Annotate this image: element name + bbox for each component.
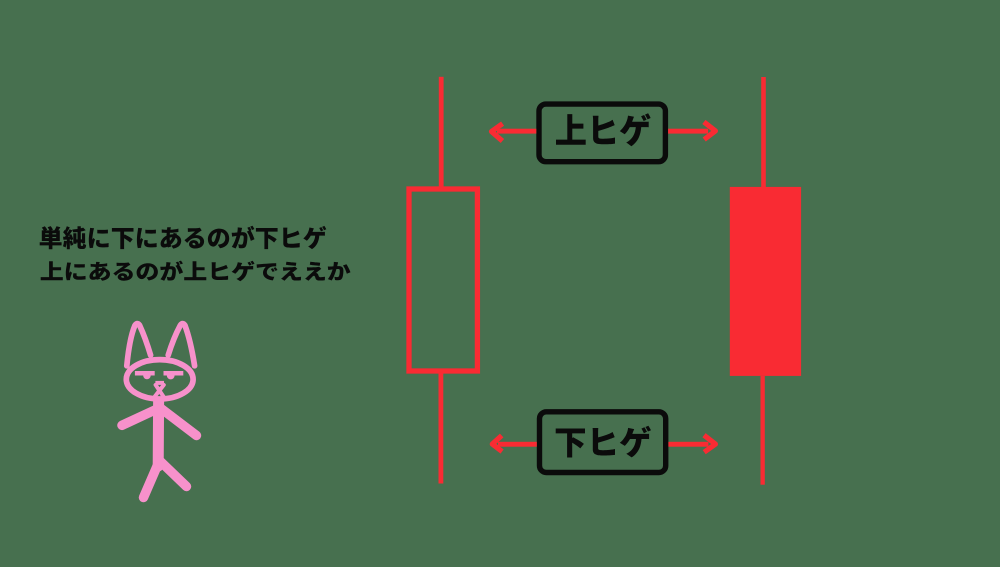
cat right arm [161, 409, 197, 436]
upper wick label box [539, 104, 665, 162]
upper-right arrowhead [704, 122, 716, 140]
label text 下ヒゲ [556, 426, 651, 458]
lower-right arrow shaft [668, 442, 708, 447]
cat right leg [161, 462, 187, 487]
lower-left arrowhead [492, 436, 502, 452]
lower wick label box [540, 412, 666, 473]
cat right pupil [167, 376, 175, 380]
lower-left arrow shaft [498, 442, 537, 447]
text line 1: 単純に下にあるのが下ヒゲ [40, 226, 327, 250]
cat left leg [144, 464, 159, 498]
text line 2: 上にあるのが上ヒゲでええか [41, 261, 351, 282]
lower-right arrowhead [704, 435, 715, 452]
cat head [126, 360, 193, 399]
cat left pupil [143, 376, 151, 380]
cat left arm [122, 410, 156, 426]
cat muzzle X [154, 383, 165, 398]
left candlestick upper wick [439, 77, 444, 188]
cat left eye [135, 371, 155, 376]
upper-left arrow shaft [497, 129, 536, 134]
right candlestick body (filled) [730, 187, 801, 376]
right candlestick upper wick [761, 77, 766, 188]
cat left ear [127, 324, 151, 366]
right candlestick lower wick [761, 376, 765, 485]
left candlestick lower wick [439, 373, 444, 484]
cat right ear [168, 324, 194, 366]
upper-right arrow shaft [668, 129, 708, 134]
cat right eye [164, 371, 184, 376]
upper-left arrowhead [492, 124, 503, 141]
label text 上ヒゲ [556, 113, 651, 146]
cat drawing [122, 324, 197, 498]
left candlestick body (hollow) [409, 189, 477, 371]
cat body [153, 402, 164, 466]
